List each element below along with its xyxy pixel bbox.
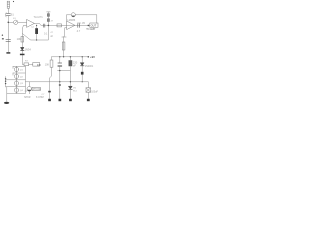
svg-text:1N: 1N	[73, 88, 76, 90]
svg-text:4.7: 4.7	[77, 29, 81, 33]
svg-text:8 OHM: 8 OHM	[36, 96, 44, 99]
svg-text:TLC271: TLC271	[34, 15, 44, 19]
svg-text:1N4001: 1N4001	[85, 65, 94, 68]
svg-text:+9V: +9V	[90, 55, 95, 59]
svg-text:B1: B1	[11, 12, 15, 16]
svg-text:OUT: OUT	[91, 23, 97, 27]
svg-text:100uF: 100uF	[91, 91, 98, 94]
svg-text:SPKR: SPKR	[24, 96, 31, 99]
svg-text:C9 .05: C9 .05	[77, 21, 85, 25]
svg-text:PHONE: PHONE	[33, 89, 42, 91]
svg-text:uF: uF	[73, 63, 76, 67]
svg-text:22K: 22K	[37, 64, 42, 67]
svg-text:LM386: LM386	[67, 18, 75, 22]
svg-text:TO AMP: TO AMP	[86, 28, 95, 31]
svg-text:10K: 10K	[45, 64, 50, 67]
svg-text:10M: 10M	[17, 37, 22, 41]
svg-text:1N34: 1N34	[25, 47, 32, 51]
